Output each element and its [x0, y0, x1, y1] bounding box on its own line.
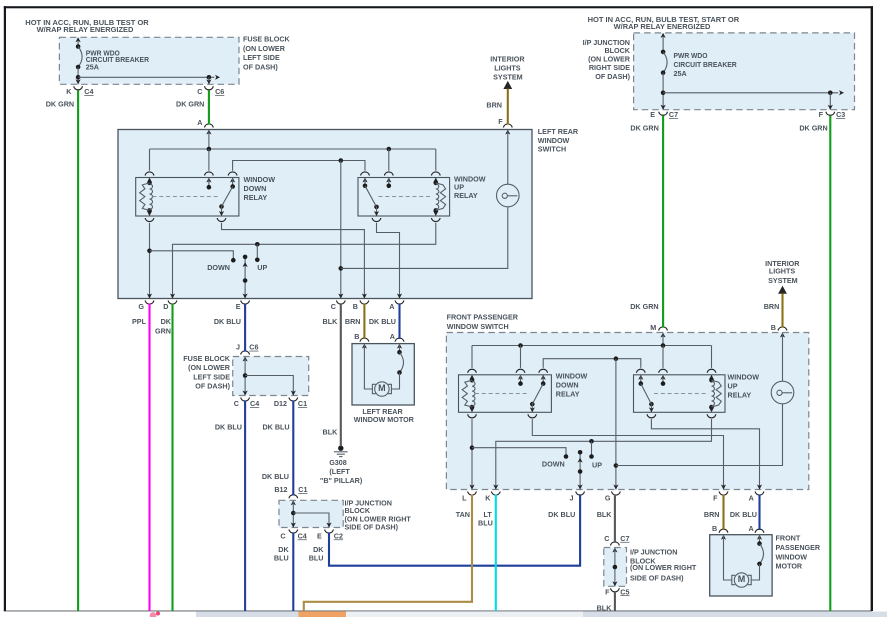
svg-text:UP: UP	[592, 461, 602, 470]
svg-text:GRN: GRN	[155, 327, 171, 336]
svg-text:DK GRN: DK GRN	[799, 123, 827, 132]
svg-text:(ON LOWER: (ON LOWER	[243, 44, 286, 53]
svg-text:G308: G308	[329, 458, 347, 467]
svg-text:WINDOW: WINDOW	[776, 552, 808, 561]
svg-text:L: L	[462, 493, 467, 502]
svg-text:F: F	[819, 110, 824, 119]
svg-text:CIRCUIT BREAKER: CIRCUIT BREAKER	[674, 60, 738, 69]
svg-text:D12: D12	[274, 399, 287, 408]
svg-text:C: C	[331, 302, 336, 311]
svg-text:SIDE OF DASH): SIDE OF DASH)	[345, 522, 399, 531]
svg-text:BLU: BLU	[309, 554, 324, 563]
svg-text:SIDE OF DASH): SIDE OF DASH)	[630, 574, 684, 583]
svg-text:W/RAP RELAY ENERGIZED: W/RAP RELAY ENERGIZED	[614, 22, 711, 31]
svg-text:WINDOW SWITCH: WINDOW SWITCH	[447, 322, 509, 331]
svg-text:(ON LOWER RIGHT: (ON LOWER RIGHT	[630, 563, 697, 572]
svg-text:B: B	[353, 302, 358, 311]
svg-text:INTERIOR: INTERIOR	[490, 55, 525, 64]
svg-text:PWR WDO: PWR WDO	[674, 51, 708, 60]
svg-text:K: K	[485, 493, 491, 502]
svg-text:G: G	[138, 302, 144, 311]
svg-text:F: F	[498, 117, 503, 126]
svg-text:DK BLU: DK BLU	[730, 510, 757, 519]
svg-text:A: A	[390, 332, 395, 341]
svg-text:I/P JUNCTION: I/P JUNCTION	[630, 548, 677, 557]
svg-text:E: E	[650, 110, 655, 119]
svg-text:BLK: BLK	[597, 510, 613, 519]
svg-text:J: J	[236, 343, 240, 352]
svg-text:C1: C1	[298, 485, 307, 494]
svg-text:C5: C5	[620, 587, 629, 596]
svg-text:RELAY: RELAY	[454, 191, 478, 200]
svg-text:F: F	[605, 587, 610, 596]
svg-text:C6: C6	[215, 87, 224, 96]
svg-text:BRN: BRN	[764, 302, 780, 311]
svg-text:B: B	[354, 332, 359, 341]
svg-text:C3: C3	[836, 110, 845, 119]
svg-text:C6: C6	[249, 343, 258, 352]
svg-text:C: C	[197, 87, 202, 96]
svg-text:DOWN: DOWN	[542, 460, 565, 469]
svg-text:A: A	[197, 118, 202, 127]
svg-text:DK BLU: DK BLU	[215, 423, 242, 432]
svg-text:FUSE BLOCK: FUSE BLOCK	[243, 35, 291, 44]
svg-text:FRONT PASSENGER: FRONT PASSENGER	[447, 313, 519, 322]
svg-text:DK GRN: DK GRN	[176, 100, 204, 109]
svg-text:DOWN: DOWN	[556, 381, 579, 390]
svg-text:M: M	[378, 383, 386, 393]
svg-text:LEFT REAR: LEFT REAR	[538, 127, 579, 136]
svg-text:WINDOW: WINDOW	[728, 372, 760, 381]
svg-text:DK: DK	[161, 317, 172, 326]
svg-text:BRN: BRN	[486, 101, 502, 110]
svg-text:B: B	[771, 323, 776, 332]
svg-text:OF DASH): OF DASH)	[243, 62, 278, 71]
svg-text:C2: C2	[334, 531, 343, 540]
svg-text:C: C	[234, 399, 239, 408]
svg-text:MOTOR: MOTOR	[776, 562, 803, 571]
svg-text:BRN: BRN	[345, 317, 361, 326]
svg-text:BLU: BLU	[274, 554, 289, 563]
svg-text:FRONT: FRONT	[776, 534, 801, 543]
svg-text:DK GRN: DK GRN	[46, 100, 74, 109]
svg-text:DK BLU: DK BLU	[369, 317, 396, 326]
svg-text:A: A	[748, 524, 753, 533]
svg-text:F: F	[713, 493, 718, 502]
svg-text:M: M	[738, 574, 746, 584]
svg-text:DK BLU: DK BLU	[262, 472, 289, 481]
svg-text:PASSENGER: PASSENGER	[776, 543, 821, 552]
svg-text:BLK: BLK	[323, 428, 339, 437]
svg-text:UP: UP	[728, 382, 738, 391]
svg-text:(ON LOWER: (ON LOWER	[588, 55, 631, 64]
svg-text:TAN: TAN	[456, 510, 470, 519]
svg-text:LIGHTS: LIGHTS	[494, 63, 521, 72]
svg-text:C: C	[280, 531, 285, 540]
svg-text:W/RAP RELAY ENERGIZED: W/RAP RELAY ENERGIZED	[37, 25, 134, 34]
svg-text:A: A	[749, 493, 754, 502]
svg-text:RELAY: RELAY	[244, 193, 268, 202]
svg-text:LEFT SIDE: LEFT SIDE	[193, 372, 230, 381]
svg-text:SYSTEM: SYSTEM	[768, 276, 798, 285]
svg-text:WINDOW MOTOR: WINDOW MOTOR	[354, 415, 415, 424]
svg-text:UP: UP	[257, 263, 267, 272]
svg-text:B12: B12	[274, 485, 287, 494]
svg-text:25A: 25A	[674, 69, 687, 78]
svg-text:BLU: BLU	[478, 518, 493, 527]
svg-text:RELAY: RELAY	[728, 391, 752, 400]
svg-text:DK GRN: DK GRN	[630, 302, 658, 311]
svg-text:SYSTEM: SYSTEM	[493, 73, 523, 82]
svg-text:WINDOW: WINDOW	[538, 136, 570, 145]
svg-text:SWITCH: SWITCH	[538, 145, 566, 154]
svg-text:DK BLU: DK BLU	[548, 510, 575, 519]
svg-text:PPL: PPL	[132, 317, 147, 326]
svg-text:LEFT SIDE: LEFT SIDE	[243, 53, 280, 62]
svg-text:C4: C4	[84, 87, 93, 96]
svg-text:"B" PILLAR): "B" PILLAR)	[320, 476, 363, 485]
svg-text:D: D	[163, 302, 168, 311]
svg-text:(ON LOWER: (ON LOWER	[188, 363, 231, 372]
svg-text:RELAY: RELAY	[556, 390, 580, 399]
svg-text:B: B	[712, 524, 717, 533]
svg-text:BRN: BRN	[704, 510, 720, 519]
svg-text:C7: C7	[669, 110, 678, 119]
svg-text:WINDOW: WINDOW	[556, 372, 588, 381]
svg-text:C4: C4	[250, 399, 259, 408]
svg-text:G: G	[605, 493, 611, 502]
svg-text:M: M	[650, 323, 656, 332]
svg-text:DOWN: DOWN	[244, 184, 267, 193]
svg-text:(LEFT: (LEFT	[329, 467, 350, 476]
svg-text:BLK: BLK	[323, 317, 339, 326]
svg-text:C4: C4	[298, 531, 307, 540]
svg-text:RIGHT SIDE: RIGHT SIDE	[589, 63, 630, 72]
svg-text:LIGHTS: LIGHTS	[769, 267, 796, 276]
svg-text:25A: 25A	[86, 63, 99, 72]
svg-text:C7: C7	[620, 534, 629, 543]
svg-text:OF DASH): OF DASH)	[195, 382, 230, 391]
svg-text:K: K	[66, 87, 72, 96]
svg-text:DK GRN: DK GRN	[630, 123, 658, 132]
svg-text:FUSE BLOCK: FUSE BLOCK	[183, 354, 231, 363]
svg-text:A: A	[389, 302, 394, 311]
svg-text:E: E	[236, 302, 241, 311]
svg-text:WINDOW: WINDOW	[244, 175, 276, 184]
svg-text:BLK: BLK	[597, 604, 613, 613]
svg-text:DOWN: DOWN	[207, 263, 230, 272]
svg-text:C1: C1	[298, 399, 307, 408]
svg-text:DK BLU: DK BLU	[262, 423, 289, 432]
svg-text:E: E	[317, 531, 322, 540]
svg-text:OF DASH): OF DASH)	[595, 72, 630, 81]
svg-text:J: J	[570, 493, 574, 502]
svg-text:DK BLU: DK BLU	[214, 317, 241, 326]
svg-text:C: C	[604, 534, 609, 543]
